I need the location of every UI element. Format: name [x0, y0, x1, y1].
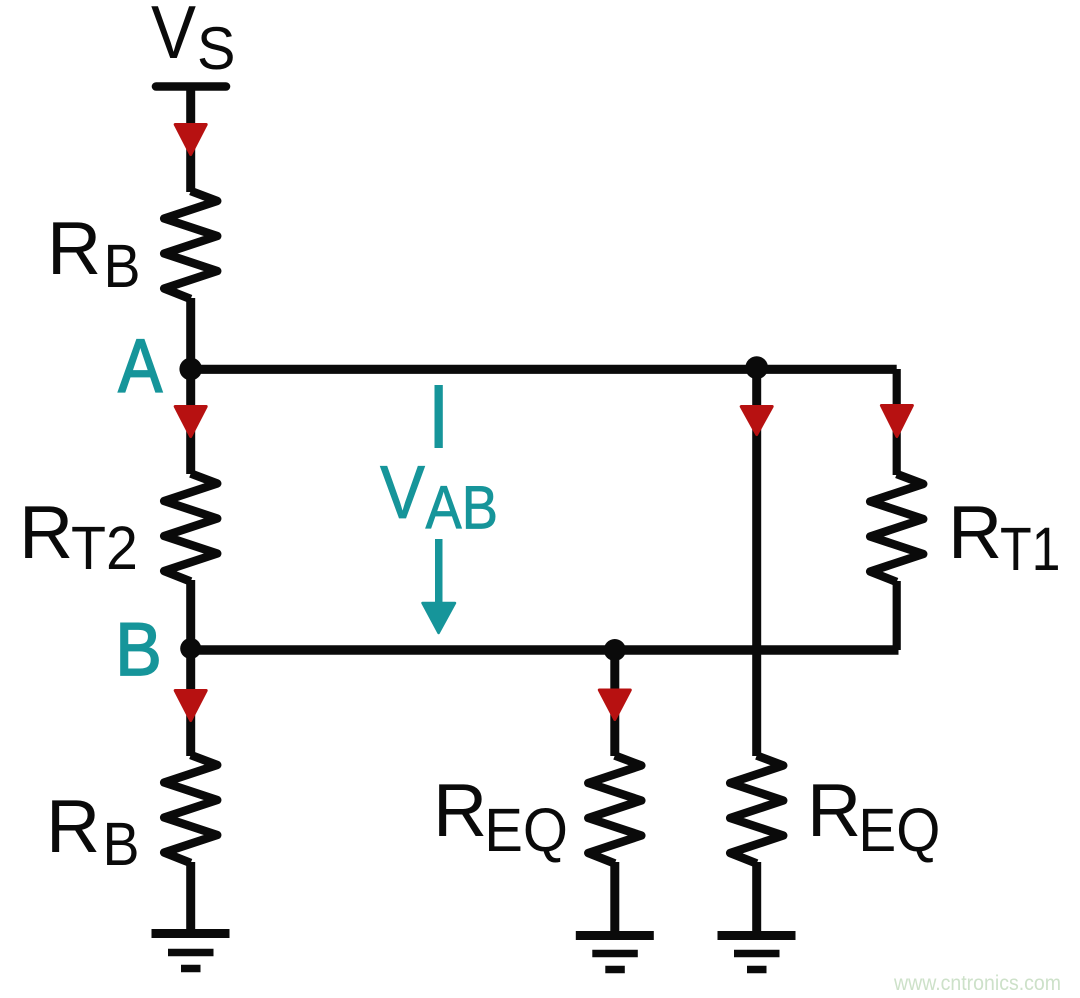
label RT2 — [19, 490, 138, 582]
svg-text:B: B — [103, 811, 140, 879]
label RB (bottom) — [46, 784, 140, 879]
resistor REQ (right, x=757) — [730, 756, 783, 864]
junction dot on B line (x=615) — [604, 639, 626, 661]
svg-text:R: R — [807, 768, 861, 852]
supply rail VS bar — [156, 82, 226, 91]
label VAB — [380, 451, 498, 543]
wire RT1 to B line — [893, 581, 901, 650]
resistor RT1 — [870, 474, 923, 582]
wire REQ left to ground — [610, 862, 619, 934]
svg-text:R: R — [47, 206, 101, 290]
wire junction (x=757) down through B line to REQ right — [752, 368, 761, 756]
corner wire down right side (x=897) — [893, 369, 901, 475]
current arrow I1 (below VS) — [175, 125, 206, 155]
resistor REQ (left, x=615) — [588, 756, 641, 864]
svg-text:B: B — [104, 233, 141, 301]
resistor RB (bottom) — [164, 755, 217, 863]
ground G1 — [152, 934, 230, 969]
label REQ (left) — [433, 768, 568, 864]
VAB arrow shaft — [435, 539, 443, 602]
svg-text:R: R — [46, 784, 100, 868]
label RT1 — [948, 490, 1061, 583]
svg-text:R: R — [433, 768, 487, 852]
wire B-line junction (x=615) to REQ left — [610, 650, 619, 756]
svg-text:V: V — [380, 451, 425, 535]
ground G3 — [718, 936, 796, 970]
svg-text:S: S — [197, 16, 235, 82]
svg-text:V: V — [151, 0, 196, 75]
svg-text:AB: AB — [426, 475, 498, 543]
wire RT2 to node B — [186, 580, 195, 650]
svg-text:A: A — [118, 324, 162, 408]
wire node B horizontal to right end — [191, 645, 899, 655]
svg-text:R: R — [19, 490, 73, 574]
svg-text:R: R — [948, 490, 1002, 574]
teal current line I (top segment above VAB) — [435, 385, 443, 448]
wire RB to node A — [186, 298, 195, 369]
current arrow I5 (x=897 below corner) — [881, 406, 912, 437]
current arrow I2 (below A) — [175, 407, 206, 437]
svg-text:T2: T2 — [71, 513, 138, 582]
resistor RT2 — [164, 474, 217, 582]
label VS — [151, 0, 235, 82]
svg-text:T1: T1 — [1000, 515, 1061, 583]
wire node A horizontal to right corner — [191, 365, 897, 374]
wire REQ right to ground — [752, 862, 761, 934]
resistor RB (top) — [164, 191, 217, 299]
svg-text:B: B — [115, 608, 162, 692]
current arrow I3 (below B) — [175, 691, 206, 721]
wire A to RT2 — [186, 369, 195, 474]
current arrow I4 (x=757 below A line) — [741, 407, 772, 435]
wire RB bottom to ground — [186, 862, 195, 934]
wire B to RB bottom — [186, 650, 195, 756]
node B junction dot — [180, 638, 201, 659]
svg-text:EQ: EQ — [858, 797, 940, 864]
wire VS bar to resistor RB top — [186, 90, 195, 192]
label RB (top) — [47, 206, 141, 301]
svg-text:www.cntronics.com: www.cntronics.com — [893, 972, 1061, 995]
ground G2 — [576, 936, 654, 970]
VAB arrow head — [423, 603, 456, 633]
label REQ (right) — [807, 768, 940, 864]
junction dot on A line (x=757) — [745, 356, 768, 379]
svg-text:EQ: EQ — [484, 796, 568, 865]
current arrow I6 (x=615 below B line) — [599, 690, 630, 720]
node A junction dot — [179, 358, 202, 381]
